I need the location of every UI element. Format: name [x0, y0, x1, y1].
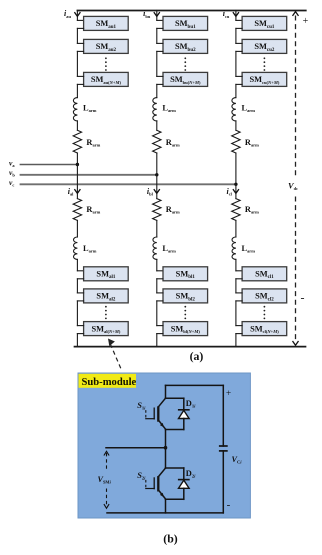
wire resistor to coil lower c — [235, 220, 237, 237]
current arrow i_bu — [154, 12, 160, 16]
svg-text:-: - — [301, 291, 305, 305]
wire chain SMbl1-SMbl2 — [157, 278, 163, 280]
SM module SMau1 — [84, 16, 129, 30]
V_SM arrow up — [104, 451, 109, 455]
wire chain SMau1-SMau2 — [77, 27, 83, 29]
svg-text:-: - — [227, 499, 231, 511]
current arrow i_bl — [154, 189, 160, 193]
resistor R_arm lower c — [232, 199, 240, 221]
diode D1i — [166, 397, 184, 399]
resistor R_arm upper a — [73, 130, 81, 153]
wire SMau(N+M) to L_arm — [77, 83, 83, 85]
wire resistor to phase node b — [156, 153, 158, 175]
wire SMbl(N+M) to bottom bus — [157, 333, 163, 335]
wire bottom DC bus — [75, 346, 306, 348]
node mid junction — [164, 446, 168, 450]
capacitor C_i — [219, 445, 228, 447]
SM module SMbu1 — [163, 16, 208, 30]
svg-text:+: + — [303, 16, 309, 27]
diode D2i — [166, 467, 184, 469]
node junction c — [234, 183, 237, 186]
wire top DC bus — [77, 10, 305, 12]
wire phase node to lower resistor a — [76, 165, 78, 199]
SM module SMbl1 — [163, 267, 208, 281]
wire resistor to phase node c — [235, 153, 237, 184]
wire mid output line — [106, 447, 166, 449]
SM module SMbu2 — [163, 39, 208, 53]
node vc phase line — [20, 183, 236, 185]
wire chain SMcl1-SMcl2 — [236, 278, 242, 280]
resistor R_arm lower a — [73, 199, 81, 221]
inductor L_arm lower a — [74, 237, 78, 259]
node vb phase line — [20, 174, 157, 176]
wire trunk emitter S1 to mid node — [165, 430, 167, 469]
node junction b — [155, 173, 158, 176]
SM module SMcu1 — [242, 16, 287, 30]
wire resistor to coil lower b — [156, 220, 158, 237]
wire SMcu(N+M) to L_arm — [236, 83, 242, 85]
SM module SMcl(N+M) — [242, 322, 287, 336]
wire trunk emitter S2 to bottom rail — [165, 499, 167, 513]
wire chain SMau2-SMau(N+M) — [77, 50, 83, 52]
SM module SMau2 — [84, 39, 129, 53]
wire top rail (b) — [166, 384, 224, 386]
SM module SMbl2 — [163, 289, 208, 303]
wire resistor to coil lower a — [76, 220, 78, 237]
Vdc dashed measurement line upper — [295, 16, 297, 177]
wire SMcl(N+M) to bottom bus — [236, 333, 242, 335]
wire leg b upper: bus to SMbu1 — [156, 11, 158, 21]
gate dashed lead S1i — [145, 409, 147, 418]
ellipsis dots lower arm b — [184, 306, 186, 308]
wire resistor to phase node a — [76, 153, 78, 165]
Vdc dashed measurement line lower — [295, 197, 297, 342]
V_SM arrow down — [104, 504, 109, 508]
wire bottom rail (b) — [107, 512, 223, 514]
svg-text:Sub-module: Sub-module — [82, 377, 137, 388]
wire coil to resistor upper c — [235, 121, 237, 130]
SM module SMbu(N+M) — [163, 72, 208, 86]
wire capacitor top lead — [222, 385, 224, 446]
svg-text:(a): (a) — [190, 349, 204, 363]
SM module SMcu2 — [242, 39, 287, 53]
Vdc arrow up — [293, 12, 299, 16]
wire SMal(N+M) to bottom bus — [77, 333, 83, 335]
node va phase line — [20, 164, 78, 166]
SM module SMal(N+M) — [84, 322, 129, 336]
sub-module panel background — [78, 373, 250, 518]
gate dashed lead S2i — [145, 478, 147, 487]
current arrow i_cu — [233, 12, 239, 16]
current arrow i_au — [74, 12, 80, 16]
SM module SMcu(N+M) — [242, 72, 287, 86]
wire phase node to lower resistor c — [235, 184, 237, 198]
inductor L_arm upper c — [232, 98, 236, 121]
inductor L_arm lower c — [232, 237, 236, 259]
SM module SMcl2 — [242, 289, 287, 303]
svg-text:+: + — [226, 389, 231, 399]
ellipsis dots upper arm a — [105, 57, 107, 59]
SM module SMbl(N+M) — [163, 322, 208, 336]
ellipsis dots upper arm c — [264, 57, 266, 59]
SM module SMcl1 — [242, 267, 287, 281]
wire coil to resistor upper a — [76, 121, 78, 130]
SM module SMal1 — [84, 267, 129, 281]
node junction a — [76, 163, 79, 166]
sub-module title box — [79, 374, 137, 388]
current arrow i_al — [74, 189, 80, 193]
wire chain SMbu1-SMbu2 — [157, 27, 163, 29]
ellipsis dots lower arm a — [105, 306, 107, 308]
wire chain SMal1-SMal2 — [77, 278, 83, 280]
wire chain SMbl2-SMbl(N+M) — [157, 300, 163, 302]
wire leg a upper: bus to SMau1 — [76, 11, 78, 21]
V_SM dashed arrow lower — [106, 489, 108, 507]
wire capacitor bottom lead — [222, 451, 224, 513]
annotation dashed arrow to sub-module — [110, 344, 121, 370]
SM module SMau(N+M) — [84, 72, 129, 86]
inductor L_arm lower b — [153, 237, 157, 259]
resistor R_arm upper b — [153, 130, 161, 153]
svg-text:(b): (b) — [163, 532, 177, 546]
wire chain SMcu2-SMcu(N+M) — [236, 50, 242, 52]
wire coil to SMcl1 — [235, 259, 237, 270]
wire chain SMcl2-SMcl(N+M) — [236, 300, 242, 302]
wire phase node to lower resistor b — [156, 175, 158, 199]
wire leg c upper: bus to SMcu1 — [235, 11, 237, 21]
inductor L_arm upper b — [153, 98, 157, 121]
Vdc arrow down — [293, 341, 299, 345]
ellipsis dots lower arm c — [264, 306, 266, 308]
resistor R_arm upper c — [232, 130, 240, 153]
transistor S2i IGBT — [159, 468, 166, 476]
inductor L_arm upper a — [73, 98, 77, 121]
resistor R_arm lower b — [153, 199, 161, 221]
wire SMbu(N+M) to L_arm — [157, 83, 163, 85]
current arrow i_cl — [233, 189, 239, 193]
wire coil to resistor upper b — [156, 121, 158, 130]
ellipsis dots upper arm b — [184, 57, 186, 59]
SM module SMal2 — [84, 289, 129, 303]
V_SM dashed arrow upper — [106, 453, 108, 470]
wire coil to SMal1 — [76, 259, 78, 270]
wire trunk collector S1 — [165, 385, 167, 398]
wire coil to SMbl1 — [156, 259, 158, 270]
wire chain SMal2-SMal(N+M) — [77, 300, 83, 302]
wire chain SMbu2-SMbu(N+M) — [157, 50, 163, 52]
wire chain SMcu1-SMcu2 — [236, 27, 242, 29]
transistor S1i IGBT — [159, 398, 166, 406]
